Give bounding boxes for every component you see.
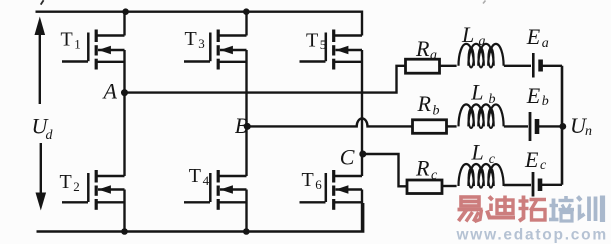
svg-text:c: c: [431, 168, 438, 183]
wire phase B line with hop over leg3: [247, 118, 413, 126]
wire leg2 middle T3 source to T4 drain through node B: [245, 50, 247, 176]
wire Lc to Ec: [504, 184, 531, 186]
svg-text:www.edatop.com: www.edatop.com: [456, 227, 608, 244]
wire Rc to Lc: [442, 185, 457, 187]
watermark char 培: [549, 196, 574, 221]
wire leg1 T2 source to bottom rail: [123, 190, 125, 232]
resistor Rc: [407, 180, 442, 194]
svg-text:1: 1: [74, 37, 81, 52]
svg-text:4: 4: [203, 173, 210, 188]
svg-text:B: B: [235, 113, 248, 138]
watermark char 迪: [487, 196, 515, 218]
svg-text:5: 5: [320, 37, 327, 52]
transistor Q T3: [184, 30, 247, 70]
svg-text:E: E: [526, 83, 541, 108]
inductor Lc: [459, 164, 504, 188]
junction dot bottom rail T2: [121, 228, 128, 235]
wire leg2 T4 source to bottom rail: [245, 190, 247, 232]
arrow Ud up: [35, 17, 46, 105]
svg-text:T: T: [302, 169, 314, 191]
svg-text:E: E: [526, 24, 541, 49]
battery Ea short plate: [538, 60, 543, 72]
svg-text:T: T: [306, 29, 318, 51]
wire Lb to Eb: [504, 125, 528, 127]
node A junction dot: [121, 89, 128, 96]
svg-text:n: n: [585, 124, 592, 139]
node C junction dot: [359, 151, 366, 158]
battery Ec long plate: [532, 172, 535, 197]
svg-text:E: E: [524, 147, 539, 172]
svg-text:C: C: [340, 144, 355, 169]
battery Ea long plate: [532, 53, 535, 78]
junction dot bottom rail T4: [243, 228, 250, 235]
wire La to Ea: [504, 65, 531, 67]
watermark char 易: [458, 197, 483, 222]
wire Rb to Lb: [447, 125, 457, 127]
svg-text:T: T: [61, 28, 73, 50]
stray mark top middle: [483, 1, 486, 4]
battery Eb long plate: [529, 112, 532, 141]
svg-text:a: a: [479, 34, 486, 49]
transistor Q T2: [62, 170, 125, 210]
svg-text:3: 3: [198, 36, 205, 51]
node Un junction dot: [559, 123, 566, 130]
wire Ec to right bus: [542, 184, 562, 186]
svg-text:R: R: [417, 91, 432, 116]
node B junction dot: [244, 123, 251, 130]
svg-text:L: L: [471, 139, 484, 164]
wire Ra to La: [440, 65, 457, 67]
svg-text:a: a: [542, 36, 549, 51]
wire bottom DC rail: [37, 203, 364, 232]
stray mark top left: [41, 0, 44, 4]
svg-text:6: 6: [315, 177, 322, 192]
svg-text:c: c: [489, 152, 496, 167]
svg-text:A: A: [102, 79, 118, 104]
svg-text:d: d: [46, 128, 54, 143]
wire leg1 middle T1 source to T2 drain through node A: [123, 50, 125, 176]
wire leg2 drain-up T3: [245, 12, 247, 36]
svg-text:a: a: [430, 48, 437, 63]
wire top DC rail: [36, 12, 363, 36]
arrow Ud down: [36, 143, 47, 211]
wire phase A line to resistor Ra: [125, 66, 406, 93]
svg-text:b: b: [542, 94, 549, 109]
transistor Q T1: [62, 30, 125, 70]
transistor Q T6: [300, 170, 363, 210]
wire Ea to right bus: [543, 65, 563, 67]
svg-text:R: R: [415, 155, 430, 180]
svg-text:2: 2: [73, 179, 80, 194]
svg-text:L: L: [461, 22, 474, 47]
svg-text:R: R: [415, 36, 430, 61]
svg-text:T: T: [189, 165, 201, 187]
wire leg3 middle T5 source to T6 drain through node C: [361, 50, 363, 176]
wire phase C line to resistor Rc: [362, 154, 407, 186]
svg-text:c: c: [540, 158, 547, 173]
svg-text:T: T: [60, 171, 72, 193]
junction dot top rail T3: [243, 8, 250, 15]
svg-text:T: T: [185, 28, 197, 50]
inductor La: [459, 44, 504, 68]
svg-text:b: b: [489, 92, 496, 107]
wire leg1 drain-up T1: [123, 12, 125, 36]
resistor Ra: [406, 59, 440, 73]
transistor Q T5: [300, 30, 363, 70]
battery Eb short plate: [535, 119, 540, 134]
resistor Rb: [413, 120, 447, 134]
wire Eb to node Un: [539, 125, 562, 127]
watermark char 训: [578, 196, 603, 223]
battery Ec short plate: [538, 179, 543, 192]
wire leg3 T6 source to bottom rail: [361, 190, 363, 232]
watermark char 拓: [519, 196, 547, 222]
svg-text:L: L: [470, 80, 483, 105]
wire right output bus: [561, 66, 564, 185]
svg-text:b: b: [433, 104, 440, 119]
inductor Lb: [459, 104, 504, 128]
junction dot top rail T1: [122, 8, 129, 15]
transistor Q T4: [184, 170, 247, 210]
